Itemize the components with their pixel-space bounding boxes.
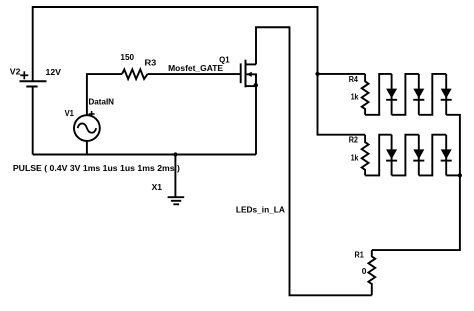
junction dot at mosfet source/body — [254, 83, 258, 87]
wire row1 R4 bottom to LED D1 top — [365, 74, 392, 115]
svg-text:R3: R3 — [145, 57, 157, 67]
resistor R3 zigzag — [122, 69, 148, 79]
ground X1 — [174, 155, 176, 197]
LED D2 row1 — [418, 74, 420, 115]
svg-text:150: 150 — [120, 52, 134, 62]
node junction dot where LED row 1 taps the rail — [315, 72, 319, 76]
resistor R2 — [362, 135, 369, 176]
wire drop from row1 junction down to row2 feed — [318, 74, 366, 135]
svg-text:DataIN: DataIN — [89, 96, 115, 106]
mosfet Q1 body stub with arrow — [246, 74, 257, 86]
mosfet Q1 source stub — [246, 85, 257, 87]
wire V1 top to gate line — [87, 74, 122, 115]
wire mosfet source down to ground rail — [255, 86, 257, 154]
LED D6 row2 — [445, 135, 447, 176]
svg-text:12V: 12V — [46, 67, 62, 77]
battery plus sign — [20, 74, 28, 76]
wire row1 feed to R4 — [318, 73, 366, 75]
voltage source V1 circle — [74, 115, 100, 141]
svg-text:PULSE ( 0.4V 3V 1ms 1us 1us 1m: PULSE ( 0.4V 3V 1ms 1us 1us 1ms 2ms ) — [13, 163, 180, 173]
svg-text:1k: 1k — [351, 92, 359, 102]
LED D5 row2 — [418, 135, 420, 176]
LED D4 row2 — [391, 135, 393, 176]
svg-text:V2: V2 — [10, 67, 21, 77]
wire top rail from battery plus to LED-array drop — [33, 7, 318, 81]
wire right rail down and left to R1 top — [372, 175, 460, 250]
wire row2 R2 bottom to LED D4 top — [365, 135, 392, 176]
wire mosfet drain up over and down to R1 (net LEDs_in_LA) — [256, 27, 372, 295]
svg-text:V1: V1 — [65, 108, 74, 118]
wire row1 D2 to D3 — [419, 74, 446, 115]
wire row2 end to right rail — [446, 174, 460, 176]
wire V1 bottom to ground rail — [86, 141, 88, 155]
LED D1 row1 — [391, 74, 393, 115]
svg-text:R2: R2 — [349, 134, 358, 144]
wire row2 D5 to D6 — [419, 135, 446, 176]
svg-text:1k: 1k — [351, 152, 359, 162]
sine wave inside V1 — [78, 123, 97, 132]
wire row1 end into right rail — [446, 115, 460, 176]
wire R3 to mosfet gate — [148, 73, 241, 75]
mosfet Q1 channel bar — [245, 60, 247, 88]
wire row2 D4 to D5 — [392, 135, 419, 176]
svg-text:R4: R4 — [349, 74, 358, 84]
LED D3 row1 — [445, 74, 447, 115]
wire bottom ground rail — [33, 154, 256, 156]
wire row1 D1 to D2 — [392, 74, 419, 115]
svg-text:R1: R1 — [355, 250, 364, 260]
resistor R1 — [368, 250, 375, 295]
junction dot row2 end on right rail — [458, 173, 462, 177]
V1 plus sign — [89, 113, 95, 115]
battery V2 plates — [20, 80, 47, 82]
resistor R4 — [362, 74, 369, 115]
svg-text:Mosfet_GATE: Mosfet_GATE — [168, 63, 223, 73]
junction dot ground tap on bottom rail — [173, 152, 177, 156]
mosfet Q1 gate bar — [240, 63, 242, 83]
svg-text:X1: X1 — [152, 182, 163, 192]
svg-text:0: 0 — [362, 266, 367, 276]
mosfet Q1 drain stub — [246, 63, 257, 65]
svg-text:Q1: Q1 — [219, 54, 230, 64]
svg-text:LEDs_in_LA: LEDs_in_LA — [236, 204, 286, 214]
wire battery negative to bottom rail — [32, 87, 34, 155]
